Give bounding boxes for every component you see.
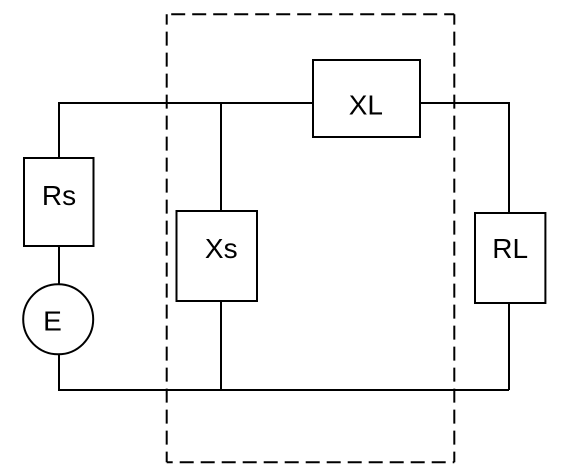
svg-text:XL: XL — [349, 90, 383, 121]
svg-text:Xs: Xs — [205, 233, 238, 264]
svg-text:Rs: Rs — [42, 180, 76, 211]
svg-text:RL: RL — [492, 233, 528, 264]
svg-text:E: E — [43, 306, 62, 337]
